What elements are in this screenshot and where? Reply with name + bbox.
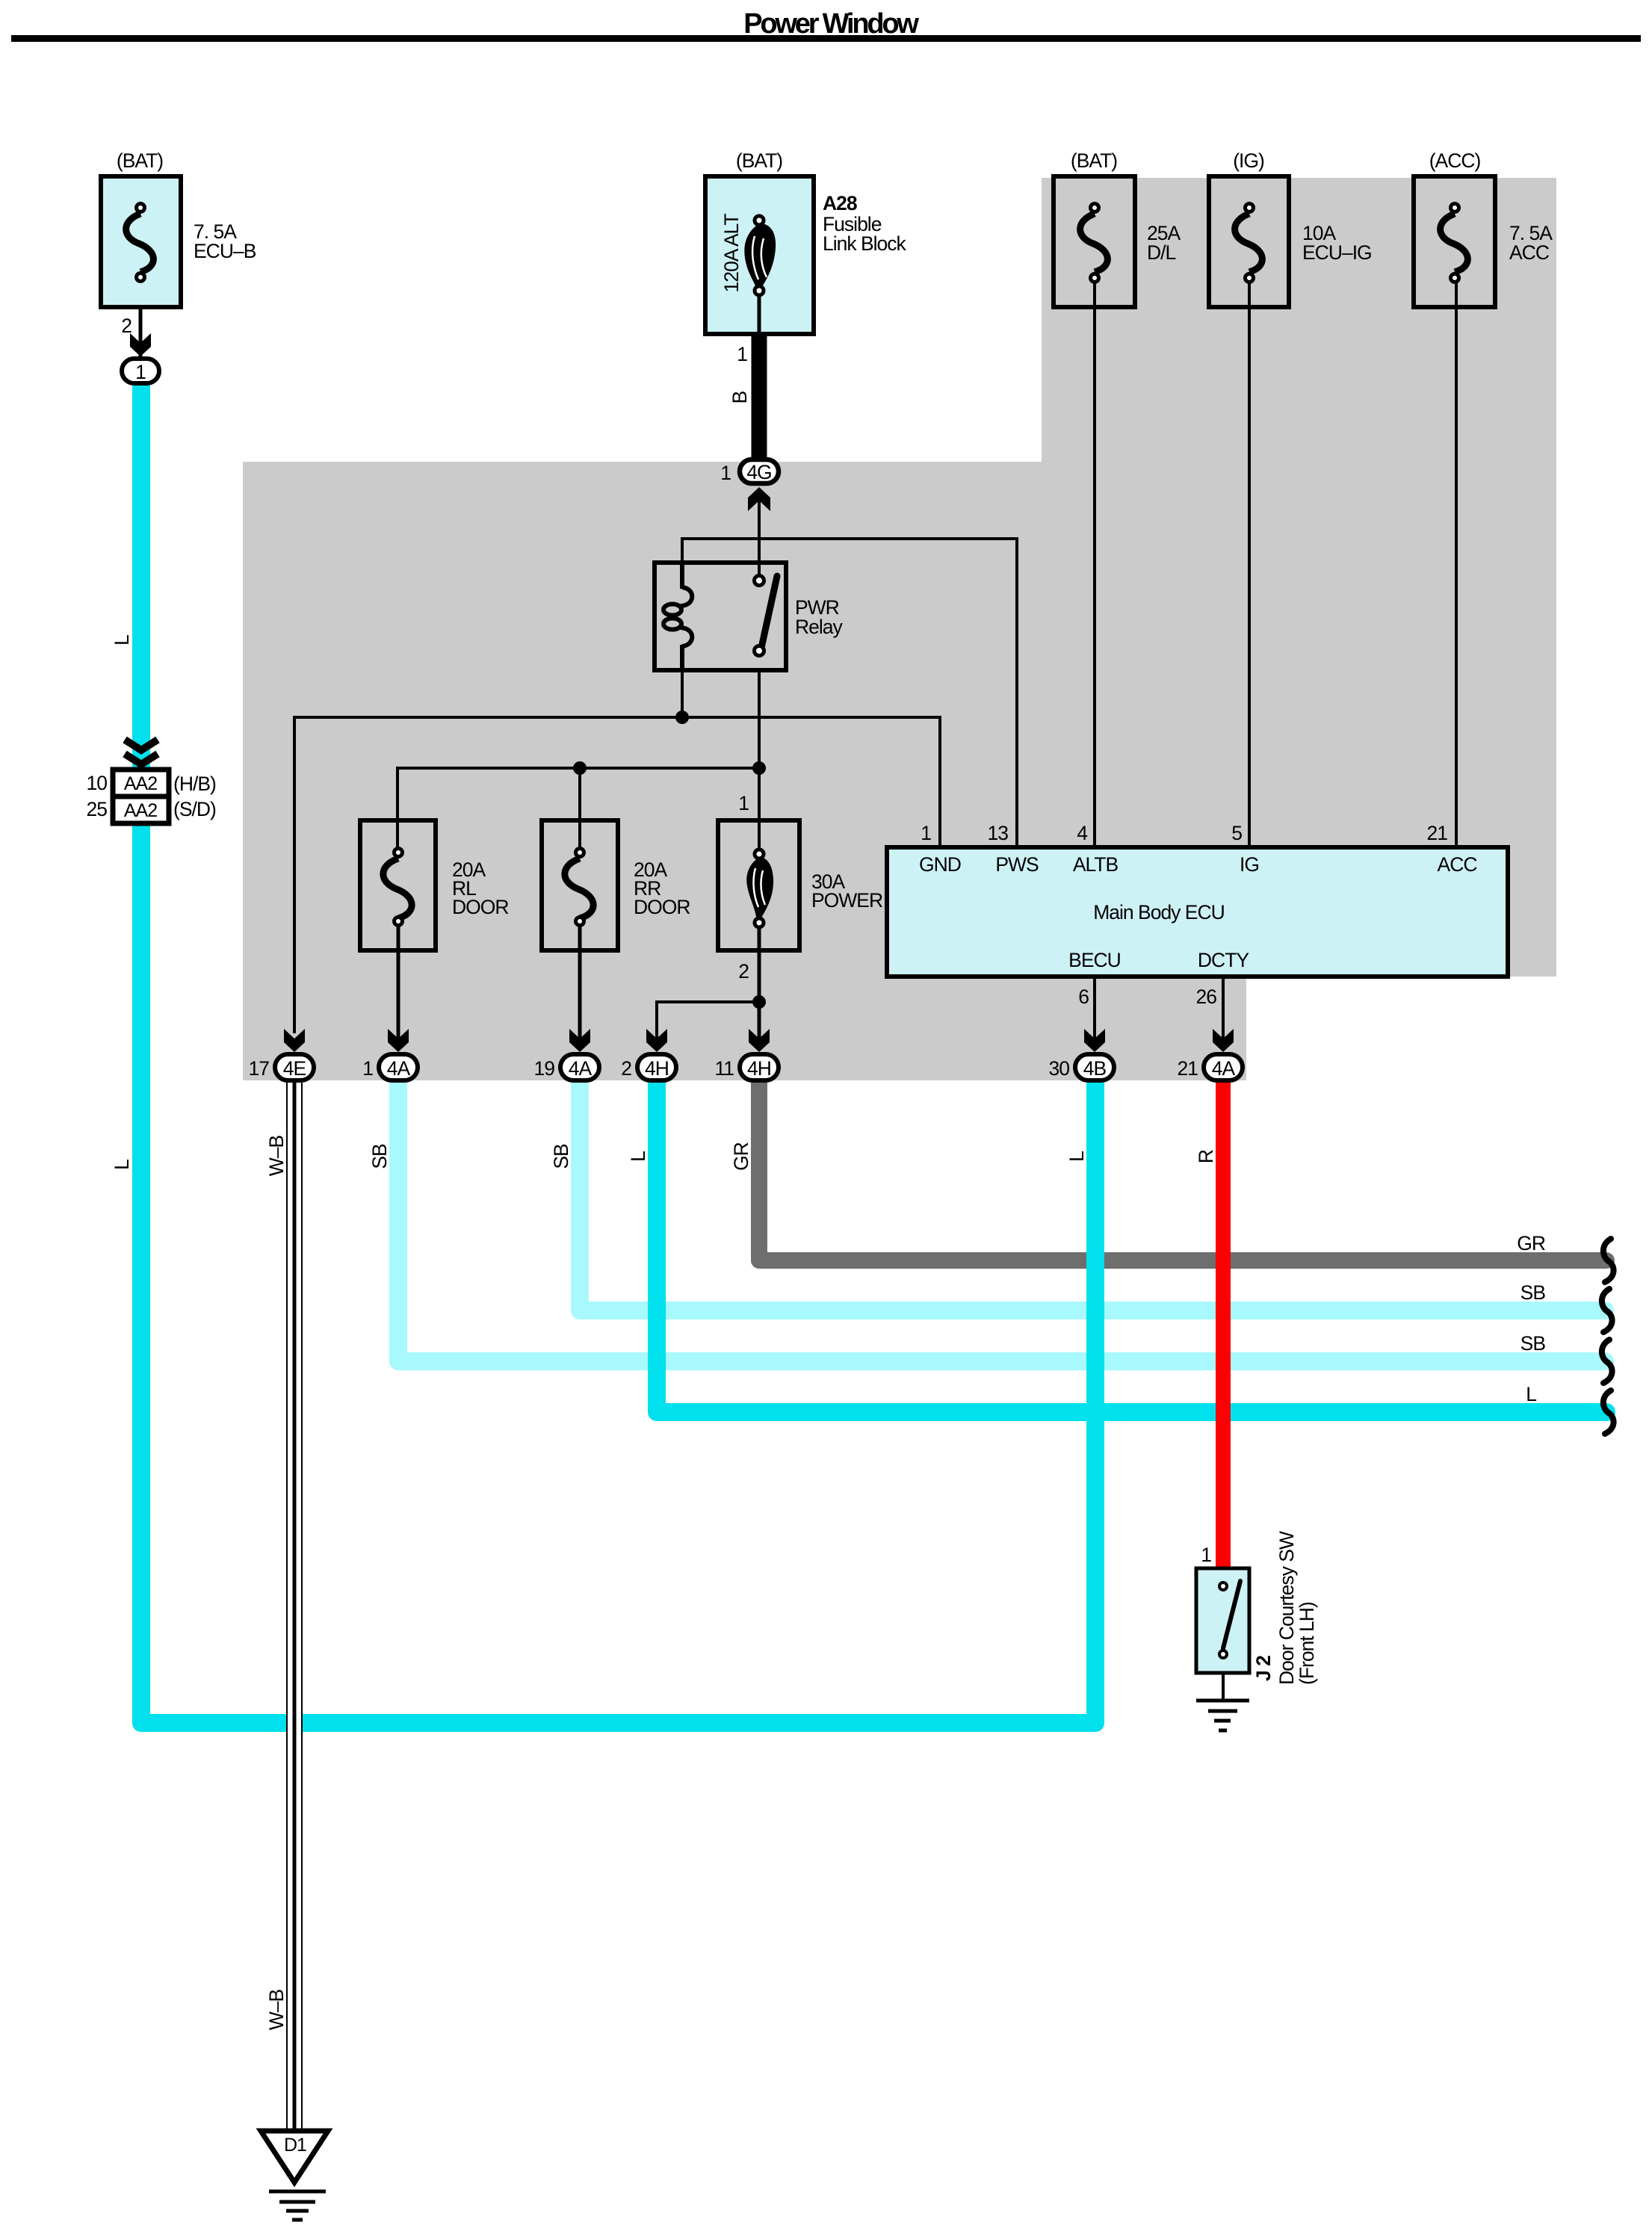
link terminals xyxy=(755,216,764,225)
wire: RR DOOR fuse to connector 4A xyxy=(578,926,582,1048)
wire: RL DOOR fuse to connector 4A xyxy=(397,926,400,1048)
fuse 20A RR DOOR xyxy=(542,820,690,950)
svg-text:4A: 4A xyxy=(569,1057,593,1080)
svg-text:Door Courtesy SW: Door Courtesy SW xyxy=(1275,1531,1298,1685)
fuse box RR DOOR xyxy=(542,820,618,950)
svg-text:J 2: J 2 xyxy=(1252,1656,1275,1681)
svg-text:GR: GR xyxy=(1517,1232,1545,1254)
wire R from 4A pin 21 to door courtesy switch xyxy=(1216,1083,1231,1568)
splice AA2 block xyxy=(87,770,216,823)
svg-text:1: 1 xyxy=(362,1057,373,1080)
ground D1 xyxy=(261,2131,328,2220)
svg-text:120A ALT: 120A ALT xyxy=(720,214,743,293)
svg-text:ECU–IG: ECU–IG xyxy=(1302,241,1372,264)
relay PWR xyxy=(655,560,844,672)
wire: door fuse feed bus xyxy=(397,768,759,853)
svg-text:IG: IG xyxy=(1240,853,1259,876)
svg-text:1: 1 xyxy=(737,343,747,365)
svg-text:L: L xyxy=(111,1160,133,1170)
break squiggle SB xyxy=(1602,1340,1612,1383)
svg-text:6: 6 xyxy=(1078,986,1089,1008)
svg-text:21: 21 xyxy=(1427,822,1448,844)
arrow into 4E xyxy=(284,1029,305,1052)
svg-text:SB: SB xyxy=(550,1144,572,1169)
ground at door courtesy switch xyxy=(1196,1673,1249,1730)
wire GR from 4H pin 11 to right edge xyxy=(759,1083,1606,1260)
svg-text:10: 10 xyxy=(87,772,108,794)
connector 4A pin 21 xyxy=(1178,1054,1243,1080)
svg-text:GR: GR xyxy=(730,1142,752,1171)
wire: ACC fuse to ECU pin ACC xyxy=(1455,282,1458,847)
junction dot RR fuse bus xyxy=(573,761,587,775)
wire: ECU-B fuse to connector 1 xyxy=(139,282,143,359)
svg-text:R: R xyxy=(1195,1150,1217,1163)
svg-text:L: L xyxy=(1065,1151,1088,1162)
svg-text:A28: A28 xyxy=(823,192,857,214)
fusible link 30A POWER xyxy=(718,792,882,983)
switch blade xyxy=(1223,1581,1240,1648)
fuse terminals xyxy=(137,204,145,212)
fuse 7.5A ACC xyxy=(1414,149,1553,307)
connector 4E xyxy=(249,1054,314,1080)
ground bars xyxy=(1196,1699,1249,1703)
svg-text:SB: SB xyxy=(1520,1332,1546,1355)
svg-text:DOOR: DOOR xyxy=(452,896,509,918)
svg-text:Main Body ECU: Main Body ECU xyxy=(1093,901,1225,923)
svg-text:1: 1 xyxy=(135,361,146,383)
ECU box xyxy=(887,847,1508,977)
splice block AA2 xyxy=(113,770,169,823)
fusible link box 30A POWER xyxy=(718,820,799,950)
title rule xyxy=(11,35,1641,42)
svg-text:1: 1 xyxy=(738,792,749,814)
svg-text:D/L: D/L xyxy=(1147,241,1176,264)
svg-text:SB: SB xyxy=(1520,1281,1546,1304)
svg-text:4H: 4H xyxy=(645,1057,669,1080)
connector 4H pin 2 xyxy=(621,1054,676,1080)
arrow into 4B pin 30 xyxy=(1084,1029,1105,1052)
wire: 4G to relay switch xyxy=(758,493,761,581)
wire: relay coil bottom to GND bus xyxy=(681,670,684,719)
svg-text:GND: GND xyxy=(919,853,961,876)
svg-text:(BAT): (BAT) xyxy=(736,149,782,172)
connector 4B pin 30 xyxy=(1049,1054,1114,1080)
svg-text:DCTY: DCTY xyxy=(1198,949,1249,971)
svg-text:PWS: PWS xyxy=(995,853,1039,876)
svg-text:2: 2 xyxy=(738,960,749,983)
svg-text:4A: 4A xyxy=(387,1057,411,1080)
svg-text:L: L xyxy=(627,1151,649,1162)
fuse element xyxy=(126,214,154,272)
svg-text:L: L xyxy=(1526,1383,1536,1405)
svg-text:4B: 4B xyxy=(1083,1057,1107,1080)
svg-text:(S/D): (S/D) xyxy=(173,798,216,820)
switch box J2 xyxy=(1196,1568,1249,1673)
fusible link element xyxy=(744,223,776,288)
svg-text:W–B: W–B xyxy=(265,1989,288,2030)
svg-text:DOOR: DOOR xyxy=(634,896,690,918)
svg-text:(ACC): (ACC) xyxy=(1429,149,1481,172)
svg-text:ACC: ACC xyxy=(1509,241,1550,264)
wire: 30A POWER fuse to connector 4H xyxy=(758,928,761,1048)
connector 4H pin 11 xyxy=(714,1054,779,1080)
svg-text:ALTB: ALTB xyxy=(1073,853,1119,876)
Main Body ECU xyxy=(887,822,1508,1008)
relay contacts xyxy=(755,576,764,586)
svg-text:5: 5 xyxy=(1231,822,1242,844)
wire: ECU DCTY stub to 4A xyxy=(1222,977,1225,1048)
fuse 7.5A ECU-B xyxy=(101,149,256,337)
fuse box ACC xyxy=(1414,176,1495,307)
fuse 10A ECU-IG xyxy=(1209,149,1372,307)
relay switch blade xyxy=(761,576,777,648)
switch contacts xyxy=(1219,1582,1227,1590)
svg-text:Relay: Relay xyxy=(795,616,844,638)
door courtesy switch J2 xyxy=(1196,1531,1318,1685)
junction dot POWER feed bus xyxy=(752,761,766,775)
fusible link box A28 xyxy=(705,176,814,334)
svg-text:13: 13 xyxy=(988,822,1009,844)
svg-text:4A: 4A xyxy=(1212,1057,1236,1080)
wire: GND bus (4E up, across, down to ECU pin 1) xyxy=(294,717,940,1033)
svg-text:1: 1 xyxy=(1201,1544,1211,1566)
fuse box RL DOOR xyxy=(360,820,436,950)
wire: D/L fuse to ECU pin ALTB xyxy=(1093,282,1096,847)
svg-text:Link Block: Link Block xyxy=(823,232,907,255)
break squiggle GR xyxy=(1603,1239,1614,1282)
fuse box ECU-B xyxy=(101,176,181,307)
break squiggle L xyxy=(1603,1390,1614,1434)
wire: relay switch to 30A POWER fuse xyxy=(758,670,761,850)
svg-text:(Front LH): (Front LH) xyxy=(1296,1602,1318,1685)
connector 1 xyxy=(122,359,159,383)
svg-text:POWER: POWER xyxy=(811,889,882,912)
connector 4G xyxy=(720,460,779,484)
break squiggle SB xyxy=(1602,1289,1612,1332)
arrow up out of 4G xyxy=(748,487,770,511)
svg-text:25: 25 xyxy=(87,798,108,820)
svg-text:(BAT): (BAT) xyxy=(1071,149,1117,172)
arrow into 4A pin 21 xyxy=(1213,1029,1234,1052)
svg-text:(BAT): (BAT) xyxy=(117,149,163,172)
svg-text:2: 2 xyxy=(621,1057,631,1080)
arrow into 4H pin 11 xyxy=(749,1029,770,1052)
arrow into 4A pin 1 xyxy=(388,1029,409,1052)
svg-text:4E: 4E xyxy=(283,1057,306,1080)
svg-text:26: 26 xyxy=(1196,986,1217,1008)
connector 4A pin 1 xyxy=(362,1054,418,1080)
svg-text:AA2: AA2 xyxy=(124,800,157,821)
svg-text:(H/B): (H/B) xyxy=(173,773,216,795)
svg-text:ACC: ACC xyxy=(1438,853,1478,876)
wire SB from 4A pin 19 to right edge xyxy=(580,1083,1605,1311)
svg-text:BECU: BECU xyxy=(1068,949,1121,971)
wire: RR DOOR fuse stub xyxy=(578,768,581,853)
svg-text:4H: 4H xyxy=(747,1057,771,1080)
svg-text:Power Window: Power Window xyxy=(743,8,919,40)
relay coil xyxy=(680,560,684,589)
svg-text:B: B xyxy=(728,391,751,403)
svg-text:4: 4 xyxy=(1077,822,1087,844)
svg-text:19: 19 xyxy=(534,1057,555,1080)
ground bars xyxy=(269,2190,326,2194)
fuse 25A D/L xyxy=(1054,149,1181,307)
svg-text:W–B: W–B xyxy=(265,1135,288,1176)
svg-text:21: 21 xyxy=(1178,1057,1198,1080)
wire L main run from connector 1 to 4B xyxy=(141,386,1095,1723)
junction dot at relay coil / GND bus xyxy=(675,711,689,724)
wire: ECU-IG fuse to ECU pin IG xyxy=(1248,282,1251,847)
ground triangle D1 xyxy=(261,2131,328,2182)
svg-text:30: 30 xyxy=(1049,1057,1070,1080)
svg-text:D1: D1 xyxy=(284,2135,306,2156)
svg-text:4G: 4G xyxy=(746,461,771,483)
svg-text:SB: SB xyxy=(368,1144,391,1169)
arrow into 4A pin 19 xyxy=(569,1029,590,1052)
splice AA2 double chevron xyxy=(125,740,158,764)
svg-text:1: 1 xyxy=(921,822,931,844)
svg-text:ECU–B: ECU–B xyxy=(194,240,256,262)
fuse 20A RL DOOR xyxy=(360,820,509,950)
gray harness background region xyxy=(243,178,1556,1080)
svg-text:17: 17 xyxy=(249,1057,270,1080)
junction dot 4H branch xyxy=(752,995,766,1009)
connector 4A pin 19 xyxy=(534,1054,599,1080)
relay box xyxy=(655,563,786,670)
fuse box ECU-IG xyxy=(1209,176,1289,307)
svg-text:AA2: AA2 xyxy=(124,773,157,794)
wire: branch to connector 4H pin 2 xyxy=(657,1002,759,1048)
svg-text:(IG): (IG) xyxy=(1233,149,1264,172)
svg-text:11: 11 xyxy=(714,1057,734,1080)
wire: coil feed / PWS line (relay top to ECU pin 13) xyxy=(682,539,1017,847)
wire SB from 4A pin 1 to right edge xyxy=(398,1083,1605,1361)
fuse box D/L xyxy=(1054,176,1135,307)
fusible link block A28 120A ALT xyxy=(705,149,907,334)
wire B (battery feed) A28 to 4G xyxy=(758,295,761,336)
svg-text:1: 1 xyxy=(720,462,731,484)
wire L from 4H pin 2 to right edge xyxy=(657,1083,1606,1412)
arrow into connector 1 xyxy=(130,333,151,356)
arrow into 4H pin 2 xyxy=(646,1029,667,1052)
wire: ECU BECU stub to 4B xyxy=(1093,977,1096,1048)
svg-text:L: L xyxy=(111,635,133,646)
wire W-B from 4E to ground D1 xyxy=(286,1083,303,2131)
